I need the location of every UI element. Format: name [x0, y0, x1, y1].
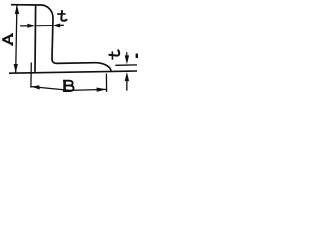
- label B, drawn as paths: [63, 81, 74, 91]
- dimension t (right) upper extension line: [115, 64, 137, 66]
- dimension A top arrowhead: [15, 5, 19, 14]
- dimension B right arrowhead: [97, 88, 107, 92]
- label A (rotated 90 CCW, drawn as paths): [2, 33, 12, 46]
- dimension t (right) lower arrowhead and stem: [125, 72, 129, 81]
- dimension A line: [16, 5, 17, 72]
- dimension t (top) left arrowhead: [27, 24, 35, 28]
- angle profile outline (top edge, rounded toe, inner face, fillet, horizontal leg, toe): [11, 5, 111, 72]
- dimension B right extension line: [105, 74, 107, 93]
- dimension B left arrowhead: [31, 85, 40, 89]
- label t (right, rotated 90 CCW, drawn as paths): [109, 50, 120, 60]
- profile bottom edge with extension line both sides: [9, 71, 137, 73]
- dimension t (top) middle segment through leg: [35, 25, 53, 27]
- label t (top), drawn as paths: [57, 10, 67, 21]
- dimension t (top) right arrowhead: [53, 24, 60, 28]
- dimension t (top) left segment: [20, 25, 30, 27]
- stray mark at right image edge: [136, 54, 138, 59]
- angle profile left face: [34, 5, 37, 72]
- dimension B left extension line: [30, 63, 32, 88]
- dimension t (top) right segment: [58, 24, 64, 26]
- background: [0, 0, 138, 101]
- dimension A bottom arrowhead: [14, 64, 18, 73]
- dimension t (right) upper stem and arrowhead: [126, 52, 128, 56]
- dimension B line: [31, 87, 106, 91]
